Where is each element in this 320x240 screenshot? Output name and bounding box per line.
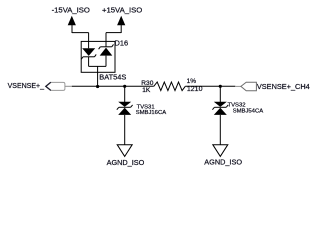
- wire D16 common cathode bottom: [89, 65, 106, 67]
- TVS32 bidirectional TVS diode: [212, 102, 228, 115]
- svg-text:VSENSE+_CH4: VSENSE+_CH4: [257, 82, 310, 91]
- wire main net right segment: [185, 85, 235, 87]
- svg-text:1%: 1%: [187, 78, 197, 85]
- D16 left schottky diode (anode top): [81, 48, 96, 66]
- wire: [105, 33, 107, 47]
- svg-text:AGND_ISO: AGND_ISO: [204, 158, 242, 167]
- svg-text:R30: R30: [141, 80, 153, 87]
- svg-text:1210: 1210: [187, 86, 203, 93]
- wire TVS32 branch: [219, 86, 221, 102]
- wire TVS31 to ground: [124, 115, 126, 145]
- power arrow -15VA_ISO: [68, 16, 76, 33]
- svg-text:-15VA_ISO: -15VA_ISO: [52, 6, 90, 15]
- svg-text:SMBJ16CA: SMBJ16CA: [136, 110, 167, 116]
- power arrow +15VA_ISO: [117, 16, 125, 33]
- svg-text:BAT54S: BAT54S: [99, 73, 126, 82]
- diode D16 BAT54S body box: [81, 41, 115, 72]
- TVS31 bidirectional TVS diode: [117, 102, 133, 115]
- wire TVS31 branch: [124, 86, 126, 102]
- port VSENSE+ left: [46, 82, 65, 90]
- wire: [88, 33, 90, 49]
- svg-text:VSENSE+_: VSENSE+_: [8, 83, 44, 90]
- wire main net left segment: [72, 85, 154, 87]
- wire gray stub to right port: [235, 85, 241, 87]
- D16 right schottky diode (cathode top): [99, 44, 114, 66]
- junction at TVS31 branch: [123, 85, 126, 88]
- wire D16 stem to main net: [97, 66, 99, 86]
- wire from -15VA_ISO arrow to D16 pin: [72, 32, 89, 34]
- port VSENSE+_CH4 right: [241, 82, 257, 91]
- svg-text:D16: D16: [115, 39, 129, 48]
- wire gray stub from left port: [65, 85, 72, 87]
- ground AGND_ISO left: [117, 145, 132, 157]
- junction at D16 stem: [96, 85, 99, 88]
- wire TVS32 to ground: [219, 115, 221, 145]
- junction at TVS32 branch: [219, 85, 222, 88]
- ground AGND_ISO right: [213, 145, 228, 157]
- svg-text:SMBJ54CA: SMBJ54CA: [233, 108, 264, 114]
- svg-text:AGND_ISO: AGND_ISO: [107, 158, 145, 167]
- svg-text:1K: 1K: [142, 87, 151, 94]
- resistor R30 zigzag: [154, 82, 186, 91]
- svg-text:+15VA_ISO: +15VA_ISO: [102, 6, 142, 15]
- wire from +15VA_ISO arrow to D16 pin: [106, 32, 121, 34]
